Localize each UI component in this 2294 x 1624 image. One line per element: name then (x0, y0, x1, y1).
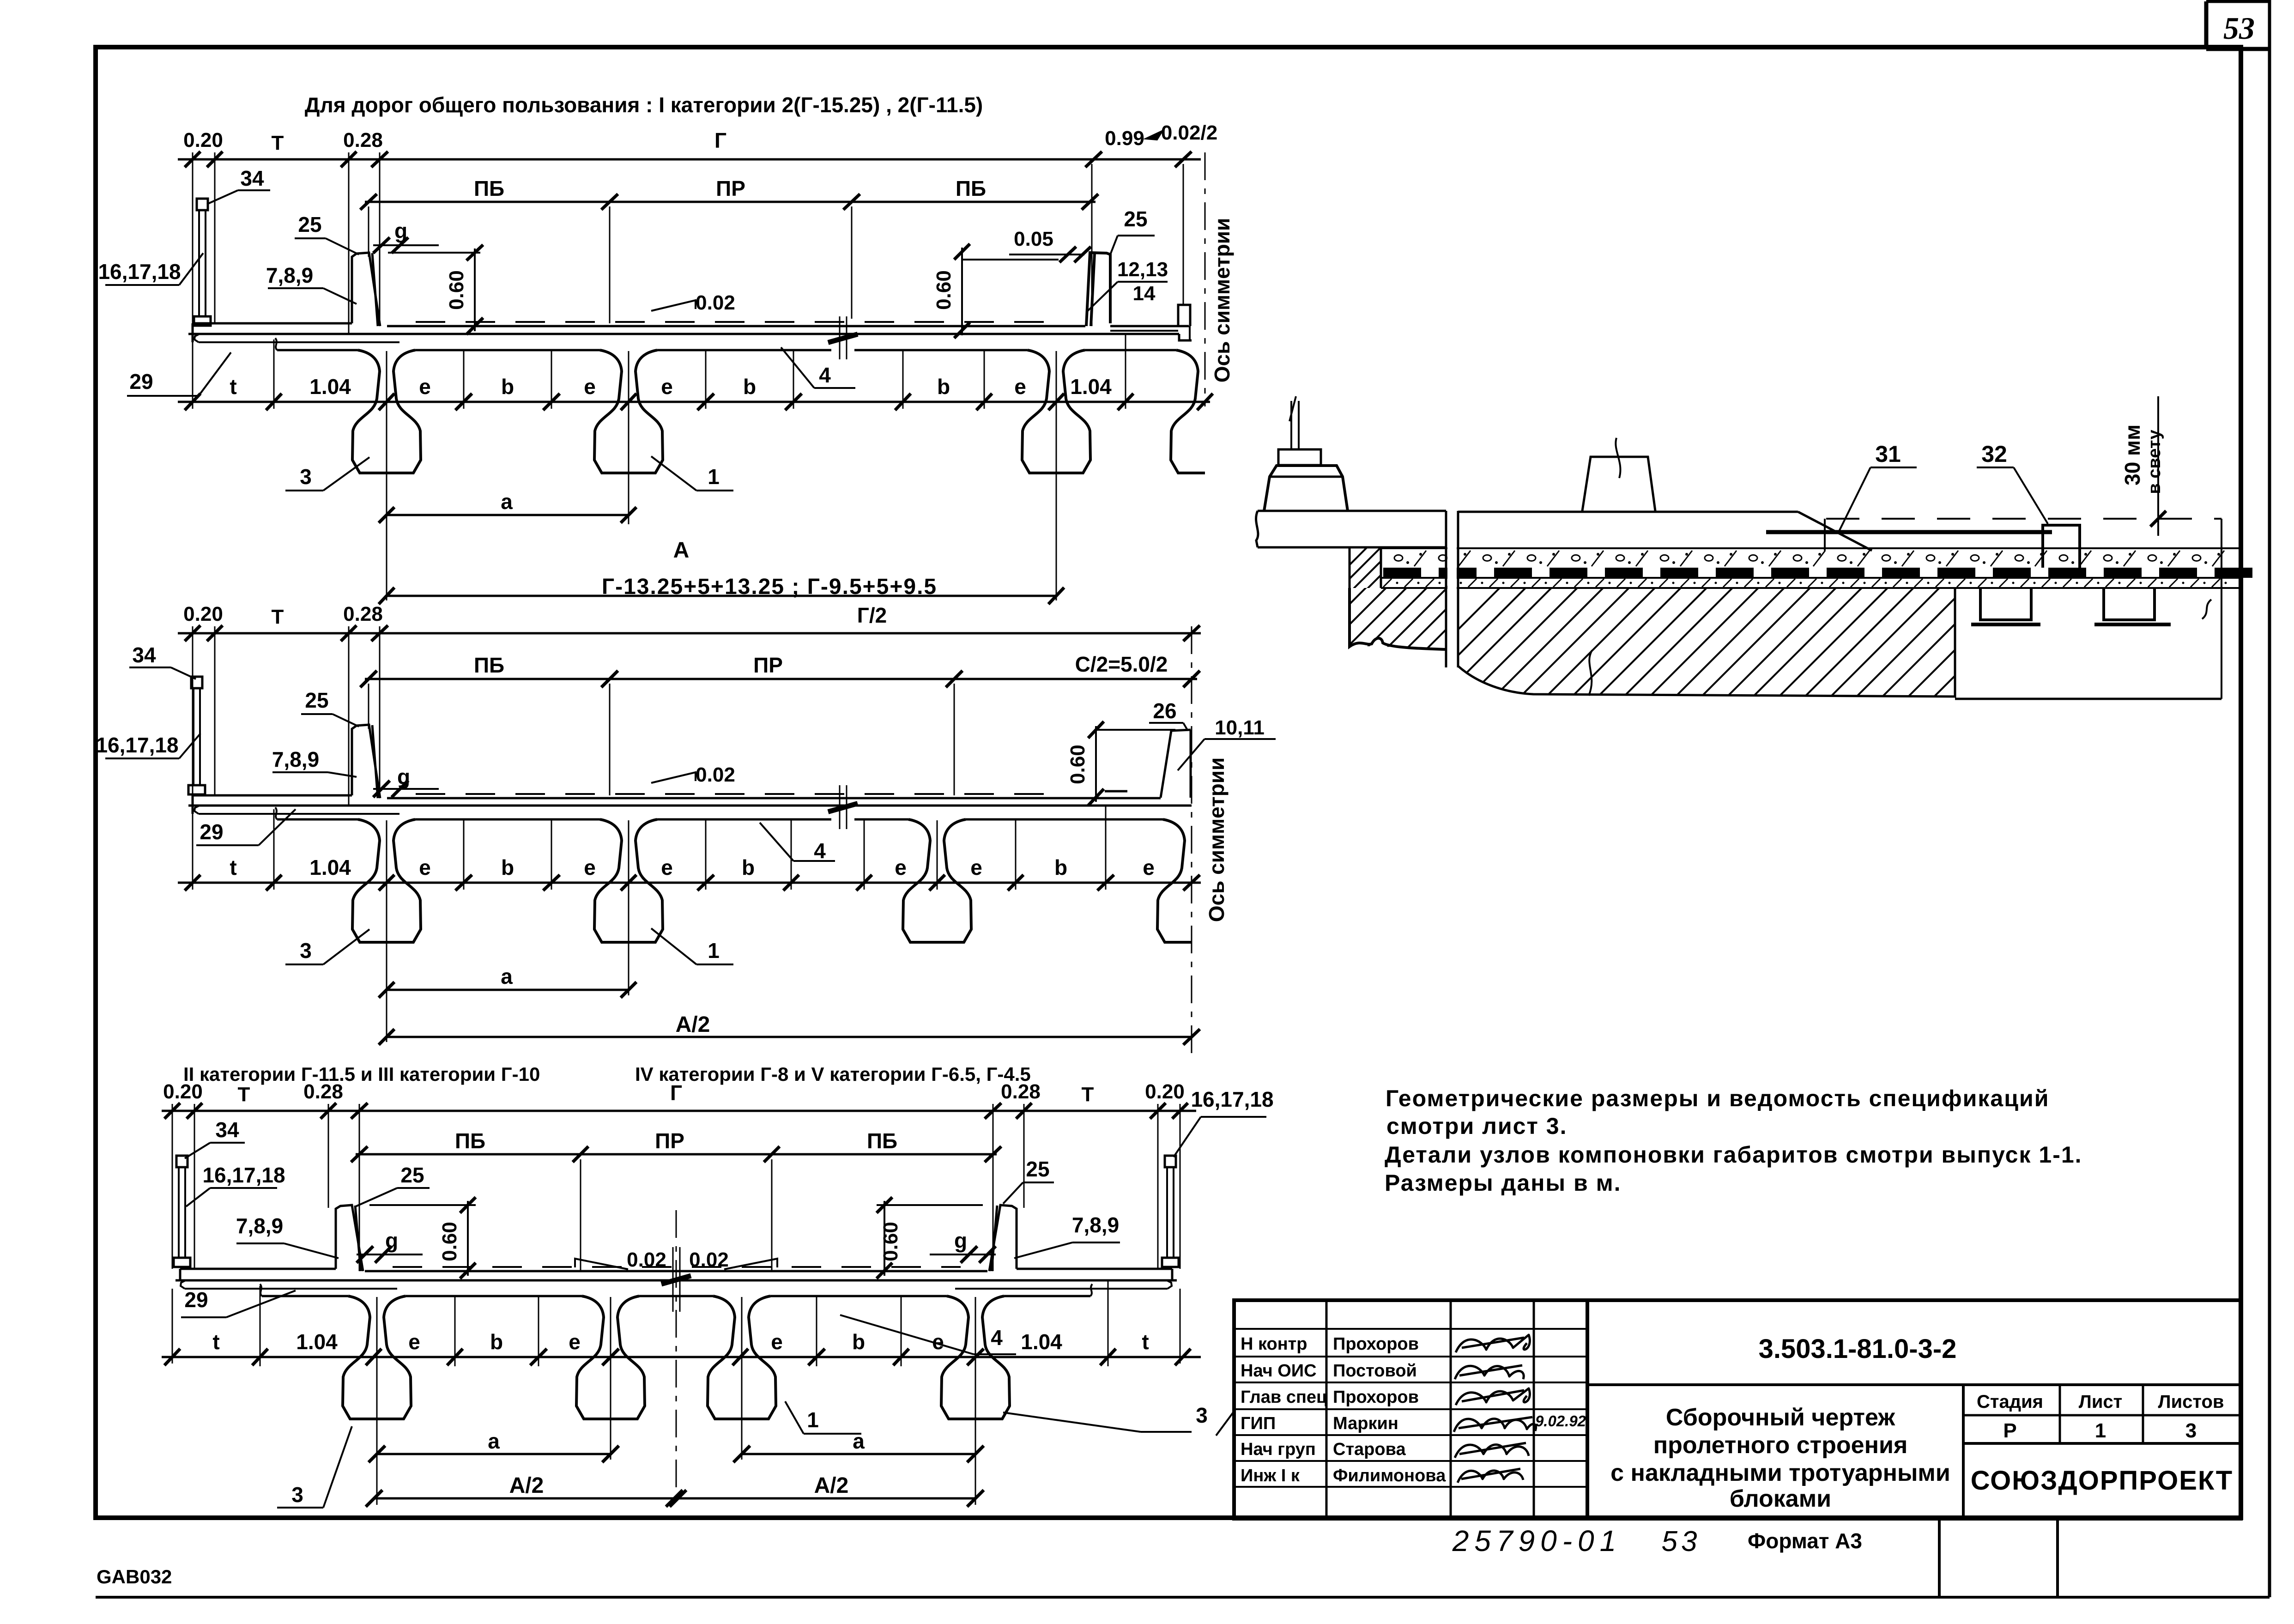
sidewalk support strips (bottom) (185, 1288, 397, 1290)
deck slab bottom (bottom) (176, 1279, 1177, 1282)
svg-text:25: 25 (1124, 207, 1147, 231)
symmetry axis (bottom) (676, 1210, 677, 1507)
dim line ПБ ПР С/2 (middle drawing) (365, 678, 1197, 680)
svg-text:Маркин: Маркин (1333, 1414, 1398, 1433)
beam 3 joint left (bottom) (343, 1296, 411, 1419)
detail: anchor hook 1 (1980, 589, 2031, 620)
curb ledge line right (1110, 330, 1178, 332)
svg-text:b: b (490, 1330, 503, 1354)
svg-text:3.503.1-81.0-3-2: 3.503.1-81.0-3-2 (1759, 1334, 1957, 1364)
svg-text:Инж I к: Инж I к (1241, 1466, 1300, 1485)
left curb block (middle) (352, 725, 380, 798)
svg-text:t: t (212, 1330, 219, 1354)
svg-text:e: e (661, 855, 673, 879)
right curb block (items 12,13,14) (1086, 253, 1110, 326)
svg-text:ПР: ПР (655, 1129, 684, 1153)
design surface dashed (middle) (416, 793, 1062, 795)
svg-text:IV категории Г-8 и V кат: IV категории Г-8 и V категории Г-6.5, Г-… (635, 1063, 1031, 1085)
dim line Г (top drawing, first level) (178, 158, 1201, 161)
svg-text:3: 3 (300, 465, 312, 489)
svg-text:b: b (742, 855, 755, 879)
svg-text:7,8,9: 7,8,9 (266, 263, 313, 287)
svg-text:t: t (1142, 1330, 1149, 1354)
svg-text:0.20: 0.20 (163, 1080, 203, 1103)
deck slab bottom (middle) (188, 805, 1192, 807)
svg-text:Сборочный чертеж: Сборочный чертеж (1666, 1404, 1895, 1431)
svg-text:0.60: 0.60 (445, 270, 468, 310)
detail: deck top dashed level line (1826, 518, 2221, 520)
svg-text:0.02: 0.02 (627, 1248, 666, 1271)
svg-text:e: e (771, 1330, 783, 1354)
detail: sidewalk block outline (1258, 510, 1446, 512)
svg-text:0.99: 0.99 (1105, 127, 1144, 150)
svg-text:4: 4 (819, 363, 831, 387)
signature row 5 (1455, 1443, 1529, 1458)
left curb block (items 7,8,9) (352, 253, 380, 326)
svg-text:Формат А3: Формат А3 (1748, 1529, 1862, 1553)
extension lines middle drawing (192, 626, 194, 795)
dim line a (top drawing) (387, 514, 629, 516)
symmetry axis top drawing (1205, 152, 1206, 406)
svg-text:ПБ: ПБ (474, 653, 504, 677)
svg-text:GAB032: GAB032 (97, 1566, 172, 1588)
slope mark 0.02 (middle) (651, 772, 696, 783)
dim line t 1.04 e b e (top drawing, beams) (178, 401, 1210, 403)
svg-text:e: e (970, 855, 982, 879)
beams flange top line segments (277, 349, 358, 351)
svg-text:0.60: 0.60 (932, 270, 955, 310)
svg-text:16,17,18: 16,17,18 (1191, 1087, 1273, 1111)
sidewalk support strip (middle) (199, 813, 399, 815)
detail: waterproofing black strip (1383, 568, 1421, 578)
svg-text:0.20: 0.20 (183, 129, 223, 151)
beam 1 (middle beam) joint (594, 350, 663, 473)
right sidewalk surface (bottom) (1017, 1268, 1172, 1270)
extension lines (bottom) (172, 1104, 173, 1269)
svg-text:0.02/2: 0.02/2 (1161, 121, 1217, 144)
detail: break mark right (2202, 600, 2211, 619)
dim line a (middle) (387, 989, 629, 991)
svg-text:Листов: Листов (2158, 1392, 2224, 1412)
beams flange segments (middle) (277, 818, 358, 821)
svg-text:0.28: 0.28 (343, 603, 383, 625)
svg-text:3: 3 (1196, 1403, 1208, 1427)
svg-text:34: 34 (132, 643, 156, 667)
deck break symbol (middle) (839, 785, 841, 829)
design surface dashed line (416, 321, 1058, 323)
svg-text:Нач ОИС: Нач ОИС (1241, 1361, 1317, 1381)
dim 0.60 (middle right) (1095, 726, 1097, 802)
svg-text:ПБ: ПБ (956, 176, 986, 200)
left sidewalk slab surface (193, 322, 352, 325)
dim 0.60 left (bottom) (467, 1201, 469, 1276)
median curb block 26 (middle right) (1161, 730, 1191, 798)
svg-text:34: 34 (240, 166, 264, 190)
right railing (bottom) (1165, 1156, 1176, 1167)
svg-text:a: a (501, 964, 513, 988)
svg-text:1: 1 (708, 939, 720, 963)
design surface dashed (bottom) (393, 1266, 961, 1268)
detail: railing cap (1278, 449, 1321, 465)
svg-text:b: b (852, 1330, 865, 1354)
svg-text:1: 1 (708, 465, 720, 489)
dim line А/2 left (bottom) (374, 1497, 674, 1500)
svg-text:1: 1 (2095, 1419, 2106, 1442)
left sidewalk surface (bottom) (180, 1268, 336, 1270)
svg-text:0.02: 0.02 (689, 1248, 729, 1271)
flange left end (middle) (275, 807, 277, 819)
detail: adjacent deck bottom (1955, 698, 2221, 700)
svg-text:А/2: А/2 (676, 1012, 710, 1037)
svg-text:Постовой: Постовой (1333, 1361, 1417, 1381)
names table rows (1234, 1328, 1587, 1330)
svg-text:Нач груп: Нач груп (1241, 1440, 1316, 1459)
roadway surface line (middle) (387, 797, 1161, 800)
svg-text:1.04: 1.04 (296, 1330, 338, 1354)
left sidewalk surface (middle) (193, 794, 352, 797)
svg-text:0.28: 0.28 (303, 1080, 343, 1103)
svg-text:e: e (419, 855, 431, 879)
svg-text:t: t (230, 375, 236, 399)
names table columns (1326, 1300, 1328, 1519)
svg-text:14: 14 (1133, 282, 1156, 305)
beam 1 joint (middle) (594, 819, 663, 942)
dim line ПБ ПР ПБ (top drawing, second level) (365, 201, 1096, 203)
svg-text:25790-01: 25790-01 (1452, 1524, 1622, 1557)
detail: anchor hook 2 (2104, 589, 2155, 620)
svg-text:e: e (1143, 855, 1155, 879)
deck slab bottom line (188, 333, 1179, 335)
bottom band divider 2 (2056, 1519, 2059, 1597)
svg-text:e: e (419, 375, 431, 399)
deck right end step (1179, 334, 1192, 340)
svg-text:4: 4 (814, 839, 826, 863)
detail: expansion gap (1447, 513, 1457, 665)
bottom sheet line (96, 1596, 2270, 1599)
svg-text:1.04: 1.04 (1021, 1330, 1062, 1354)
svg-text:25: 25 (298, 212, 321, 236)
svg-text:С/2=5.0/2: С/2=5.0/2 (1075, 652, 1168, 676)
beam 3 joint right (bottom) (941, 1296, 1010, 1419)
deck break symbol (839, 316, 841, 359)
svg-text:b: b (937, 375, 950, 399)
svg-text:16,17,18: 16,17,18 (96, 733, 178, 757)
svg-text:Ось симметрии: Ось симметрии (1210, 218, 1234, 383)
half beam at axis (middle) (1157, 819, 1192, 942)
svg-text:А: А (673, 538, 690, 563)
dim line A (top drawing) (387, 595, 1056, 597)
dim line Г/2 (middle drawing) (178, 632, 1201, 635)
svg-text:Г-13.25+5+13.25 ; Г-9.5+5+9.: Г-13.25+5+13.25 ; Г-9.5+5+9.5 (602, 575, 937, 599)
svg-text:Стадия: Стадия (1977, 1392, 2043, 1412)
svg-text:0.20: 0.20 (1145, 1080, 1185, 1103)
svg-text:Глав спец: Глав спец (1241, 1388, 1327, 1407)
svg-text:Старова: Старова (1333, 1440, 1406, 1459)
curb inner mark (1105, 790, 1127, 793)
beam axis extensions (middle) (273, 809, 275, 890)
svg-text:b: b (501, 375, 514, 399)
slope marks 0.02 0.02 at axis (575, 1259, 628, 1269)
svg-text:9.02.92: 9.02.92 (1535, 1412, 1586, 1430)
svg-text:e: e (408, 1330, 420, 1354)
svg-text:7,8,9: 7,8,9 (1072, 1213, 1119, 1237)
svg-text:1.04: 1.04 (309, 375, 351, 399)
beam axis and tick extension lines (273, 339, 275, 409)
svg-text:32: 32 (1981, 441, 2007, 467)
svg-text:в свету: в свету (2145, 430, 2164, 494)
svg-text:3: 3 (291, 1483, 303, 1507)
svg-text:3: 3 (2185, 1419, 2197, 1442)
svg-text:12,13: 12,13 (1117, 258, 1168, 281)
svg-text:ПР: ПР (716, 176, 745, 200)
symmetry axis (middle) (1191, 626, 1192, 1058)
svg-text:Ось симметрии: Ось симметрии (1205, 757, 1229, 922)
svg-text:Р: Р (2003, 1419, 2016, 1442)
stadiya table box (1962, 1385, 1965, 1519)
svg-text:Для дорог общего пользования :: Для дорог общего пользования : I категор… (305, 93, 983, 117)
dim line А/2 (middle) (387, 1036, 1192, 1038)
svg-text:0.20: 0.20 (183, 603, 223, 625)
beam joint right (1022, 350, 1090, 473)
svg-text:с накладными тротуарными: с накладными тротуарными (1610, 1460, 1950, 1486)
svg-text:25: 25 (305, 688, 328, 712)
svg-text:30 мм: 30 мм (2120, 424, 2144, 485)
pedestrian railing (middle) (191, 677, 202, 688)
svg-text:Детали узлов компоновки габ: Детали узлов компоновки габаритов смотри… (1385, 1142, 2082, 1168)
svg-text:3: 3 (300, 939, 312, 963)
svg-text:16,17,18: 16,17,18 (202, 1163, 285, 1187)
title block outer box (1234, 1300, 2241, 1519)
svg-text:53: 53 (2223, 11, 2255, 46)
svg-text:31: 31 (1875, 441, 1901, 467)
svg-text:0.05: 0.05 (1014, 228, 1053, 250)
extension lines top drawing (192, 152, 194, 323)
svg-text:0.28: 0.28 (343, 129, 383, 151)
dim line ПБ ПР ПБ (bottom) (356, 1153, 997, 1156)
half beam at symmetry axis (1171, 350, 1205, 473)
svg-text:ПБ: ПБ (455, 1129, 485, 1153)
svg-text:29: 29 (184, 1288, 208, 1312)
dim 0.60 left (474, 248, 476, 331)
detail: curb block item 32 (2043, 525, 2080, 568)
beam 3 joint (middle) (352, 819, 421, 942)
svg-text:II категории Г-11.5 и III: II категории Г-11.5 и III категории Г-10 (183, 1063, 540, 1085)
signature row 4 (1454, 1417, 1536, 1432)
svg-text:e: e (584, 375, 596, 399)
dim line a right (bottom) (742, 1453, 975, 1455)
svg-text:a: a (488, 1429, 500, 1453)
svg-text:e: e (569, 1330, 581, 1354)
document number box line (1587, 1383, 2241, 1386)
svg-text:смотри лист 3.: смотри лист 3. (1386, 1113, 1567, 1139)
svg-text:25: 25 (400, 1163, 424, 1187)
signature row 6 (1458, 1469, 1523, 1483)
svg-text:Г: Г (670, 1081, 682, 1105)
dim line t 1.04 e b (bottom) (162, 1356, 1201, 1358)
beams flange segments (bottom) (262, 1295, 348, 1297)
right curb (bottom) (989, 1205, 1017, 1271)
svg-text:10,11: 10,11 (1215, 716, 1265, 739)
svg-text:7,8,9: 7,8,9 (236, 1214, 283, 1238)
svg-text:a: a (853, 1429, 865, 1453)
beam 1 joint right-center (bottom) (708, 1296, 776, 1419)
svg-text:Геометрические размеры и в: Геометрические размеры и ведомость специ… (1386, 1085, 2049, 1111)
svg-text:b: b (501, 855, 514, 879)
beam 1 joint left-center (bottom) (576, 1296, 645, 1419)
svg-text:1.04: 1.04 (309, 855, 351, 879)
svg-text:e: e (895, 855, 907, 879)
dim line Г (bottom drawing) (162, 1110, 1196, 1112)
svg-text:ПБ: ПБ (867, 1129, 897, 1153)
svg-text:0.60: 0.60 (879, 1222, 902, 1261)
svg-text:25: 25 (1026, 1157, 1049, 1181)
svg-text:Т: Т (272, 606, 284, 628)
svg-text:0.60: 0.60 (438, 1222, 461, 1261)
dim 0.60 right (961, 248, 963, 335)
svg-text:Филимонова: Филимонова (1333, 1466, 1446, 1485)
svg-text:блоками: блоками (1730, 1485, 1831, 1512)
roadway surface (bottom) (365, 1270, 987, 1273)
svg-text:29: 29 (200, 820, 223, 844)
detail: barrier rail item 31 (1766, 530, 2052, 534)
svg-text:Н контр: Н контр (1241, 1334, 1307, 1354)
beam axis extensions (bottom) (260, 1286, 261, 1366)
svg-text:e: e (584, 855, 596, 879)
page number box 53 (2204, 1, 2209, 49)
dim line a left (bottom) (377, 1453, 611, 1455)
svg-text:0.02: 0.02 (696, 764, 735, 786)
title block big divider (1586, 1300, 1589, 1519)
svg-text:53: 53 (1662, 1526, 1701, 1557)
flange left end (275, 338, 277, 350)
slope mark 0.02 (651, 300, 696, 311)
svg-text:b: b (1054, 855, 1067, 879)
svg-text:0.02: 0.02 (696, 291, 735, 314)
svg-text:7,8,9: 7,8,9 (272, 747, 319, 771)
roadway surface line (387, 325, 1085, 327)
svg-text:0.28: 0.28 (1001, 1080, 1041, 1103)
signature row 3 (1456, 1388, 1530, 1405)
svg-text:Размеры даны в м.: Размеры даны в м. (1385, 1170, 1622, 1196)
svg-text:26: 26 (1153, 699, 1176, 723)
svg-text:А/2: А/2 (814, 1473, 849, 1498)
signature row 1 (1456, 1335, 1530, 1352)
svg-text:a: a (501, 490, 513, 514)
beam 3 (edge beam left) joint (352, 350, 421, 473)
svg-text:ПБ: ПБ (474, 176, 504, 200)
svg-text:Т: Т (1082, 1083, 1094, 1106)
sidewalk support strip line (199, 341, 399, 343)
detail: railing pedestal (1264, 466, 1348, 511)
pedestrian railing (items 16,17,18) (197, 199, 208, 210)
detail: railing post (1290, 401, 1292, 449)
dim 30 mm clearance (2157, 396, 2159, 536)
detail: wheel load symbol (1582, 457, 1655, 511)
svg-text:ПР: ПР (753, 653, 783, 677)
detail: break line in mass (1589, 650, 1592, 696)
svg-text:4: 4 (991, 1326, 1003, 1350)
svg-text:Прохоров: Прохоров (1333, 1388, 1419, 1407)
svg-text:34: 34 (215, 1118, 239, 1142)
svg-text:t: t (230, 855, 236, 879)
left curb (bottom) (336, 1205, 363, 1271)
svg-text:0.60: 0.60 (1066, 745, 1089, 784)
svg-text:СОЮЗДОРПРОЕКТ: СОЮЗДОРПРОЕКТ (1971, 1466, 2233, 1496)
svg-text:e: e (661, 375, 673, 399)
svg-text:А/2: А/2 (509, 1473, 544, 1498)
detail: concrete leveling layer band (1381, 547, 2240, 549)
slash mark before ГИП (1216, 1412, 1233, 1436)
bottom band divider 1 (1938, 1519, 1941, 1597)
svg-text:Т: Т (272, 132, 284, 154)
svg-text:29: 29 (129, 370, 153, 394)
svg-text:Лист: Лист (2079, 1392, 2123, 1412)
svg-text:пролетного строения: пролетного строения (1653, 1432, 1908, 1459)
svg-text:1: 1 (807, 1408, 819, 1432)
svg-text:Т: Т (238, 1083, 250, 1106)
svg-text:ГИП: ГИП (1241, 1414, 1276, 1433)
svg-text:g: g (954, 1229, 967, 1253)
detail: pavement wedge end (1798, 512, 1872, 551)
svg-text:Г/2: Г/2 (857, 603, 887, 627)
svg-text:Г: Г (714, 128, 726, 152)
flange ends (bottom) (260, 1284, 262, 1296)
axis break at deck (bottom) (672, 1247, 674, 1312)
detail: pavement top line (1458, 511, 1798, 513)
svg-text:b: b (743, 375, 756, 399)
svg-text:Прохоров: Прохоров (1333, 1334, 1419, 1354)
left railing (bottom) (176, 1156, 188, 1167)
dim line А/2 right (bottom) (678, 1497, 975, 1500)
svg-text:16,17,18: 16,17,18 (98, 260, 181, 284)
svg-text:1.04: 1.04 (1070, 375, 1112, 399)
signature row 2 (1455, 1365, 1524, 1379)
dim 0.60 right (bottom) (884, 1201, 885, 1276)
svg-text:e: e (1014, 375, 1026, 399)
outer right sheet line (2268, 0, 2271, 1597)
dim line t 1.04 e b (middle) (178, 882, 1201, 884)
median step block (1178, 305, 1190, 326)
beam joint right (middle) (903, 819, 971, 942)
detail: lower protective layer band (1383, 579, 1392, 587)
